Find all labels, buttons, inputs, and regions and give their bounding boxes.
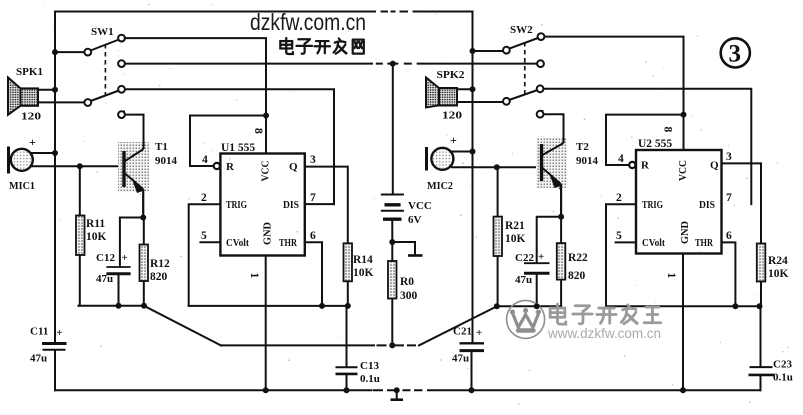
wire: right half vertical bus	[472, 12, 474, 344]
svg-text:1: 1	[248, 273, 260, 279]
capacitor C23	[749, 367, 775, 375]
svg-text:C13: C13	[360, 360, 379, 372]
svg-text:6V: 6V	[408, 214, 422, 226]
svg-text:C11: C11	[30, 326, 48, 338]
svg-text:SPK2: SPK2	[437, 70, 465, 81]
svg-text:GND: GND	[679, 221, 691, 244]
svg-text:820: 820	[568, 270, 586, 282]
svg-text:R: R	[226, 161, 235, 173]
svg-text:CVolt: CVolt	[642, 238, 665, 249]
wire: T2 emitter to node	[542, 174, 561, 217]
svg-text:C12: C12	[96, 252, 115, 264]
svg-text:SW1: SW1	[91, 26, 114, 38]
svg-text:4: 4	[202, 154, 208, 166]
wire: U1 pin6 stub and down	[305, 242, 322, 306]
wire: emitter node down to R12	[143, 218, 145, 245]
wire: bottom bus dashes	[374, 389, 422, 391]
node: circled figure 3	[721, 38, 750, 67]
svg-text:VCC: VCC	[408, 200, 432, 212]
svg-text:1: 1	[665, 273, 677, 279]
wire: U1 pin5 stub	[200, 241, 220, 243]
svg-text:47u: 47u	[30, 353, 47, 365]
svg-text:7: 7	[310, 192, 316, 204]
wire: top rail right segment	[414, 11, 473, 13]
wire: C23 top stem	[760, 306, 762, 367]
wire: R22 bottom stem	[560, 280, 562, 307]
svg-text:C22: C22	[515, 252, 534, 264]
wire: top rail dash-dot gap	[382, 11, 408, 13]
wire: SW2 throw1a to U2 VCC line	[544, 37, 684, 150]
ground (battery minus tap)	[392, 242, 422, 256]
speaker SPK2	[426, 78, 457, 108]
wire: battery rail to SW2 throw1b	[418, 63, 537, 65]
svg-text:CVolt: CVolt	[226, 238, 249, 249]
svg-text:2: 2	[201, 192, 207, 204]
wire: left vertical VCC bus	[54, 12, 56, 343]
wire: R12 bottom stem	[143, 281, 145, 306]
wire: R11 bottom to left signal bus	[79, 255, 80, 306]
wire: SW1 throw2b to T1 collector	[124, 112, 144, 150]
watermark logo circle W	[507, 300, 545, 338]
wire: U1 pin3 out to R14	[305, 167, 348, 244]
svg-text:C23: C23	[773, 359, 792, 371]
wire: R14 bottom stem	[347, 281, 349, 306]
svg-text:5: 5	[616, 230, 622, 242]
wire: right TRIG/THR bus segment	[606, 305, 760, 307]
svg-text:MIC2: MIC2	[427, 180, 453, 192]
svg-text:DIS: DIS	[699, 200, 715, 211]
resistor R21	[494, 217, 503, 256]
svg-text:U2 555: U2 555	[638, 138, 672, 150]
svg-text:3: 3	[310, 154, 316, 166]
svg-text:0.1u: 0.1u	[360, 373, 380, 385]
wire: bottom ground bus right	[428, 389, 760, 391]
wire: U2 pin4 reset loop to VCC node	[606, 115, 684, 165]
wire: T1 collector	[125, 148, 144, 160]
svg-text:4: 4	[618, 153, 624, 165]
resistor R12	[140, 245, 149, 282]
wire: SW1 pole2 common to SPK1	[38, 101, 85, 103]
svg-text:10K: 10K	[768, 268, 789, 280]
svg-text:+: +	[29, 135, 36, 149]
speaker SPK1	[8, 78, 38, 115]
wire: SW2 pole2 common to SPK2	[457, 101, 503, 103]
capacitor C22 (electrolytic)	[524, 263, 550, 273]
wire: T2 collector	[542, 147, 564, 160]
svg-text:10K: 10K	[86, 231, 107, 243]
svg-text:5: 5	[201, 230, 207, 242]
svg-text:R11: R11	[86, 218, 105, 230]
svg-text:GND: GND	[262, 222, 274, 245]
wire: SW1 throw1b to battery + (long rail)	[125, 63, 372, 65]
microphone MIC2	[427, 147, 454, 171]
switch SW1	[84, 35, 125, 118]
svg-text:300: 300	[400, 290, 418, 302]
wire: right bus below C21	[471, 351, 473, 390]
wire: MIC1 plus to VCC bus	[30, 152, 56, 154]
wire: U1 pin1 GND stem	[265, 256, 267, 391]
svg-text:SW2: SW2	[510, 24, 533, 36]
svg-text:9014: 9014	[576, 155, 599, 167]
op-amp/timer U1 555 box	[220, 154, 304, 256]
wire: U1 pin2 stub and down to TRIG/THR bus	[189, 204, 221, 306]
wire: SPK2 top terminal to right bus	[457, 88, 473, 90]
svg-text:8: 8	[252, 128, 264, 134]
svg-text:C21: C21	[453, 326, 472, 338]
svg-text:MIC1: MIC1	[9, 180, 35, 192]
svg-text:7: 7	[726, 192, 732, 204]
wire: U2 pin2 stub and down	[606, 204, 636, 306]
wire: MIC2 plus to right bus	[451, 151, 473, 153]
svg-text:9014: 9014	[155, 155, 178, 167]
svg-text:8: 8	[662, 127, 674, 133]
wire: emitter node to C12 top	[120, 218, 143, 268]
wire: TRIG/THR bus segment	[189, 305, 348, 307]
svg-text:T2: T2	[576, 141, 589, 153]
op-amp/timer U2 555 box	[636, 150, 722, 254]
wire: U2 pin6 stub and down	[722, 242, 736, 306]
wire: MIC1 output to T1 base	[31, 165, 123, 167]
svg-text:R21: R21	[505, 220, 525, 232]
svg-text:TRIG: TRIG	[226, 200, 247, 211]
wire: diagonal left bus to middle line	[144, 306, 221, 346]
svg-text:0.1u: 0.1u	[773, 372, 793, 384]
capacitor C21 (electrolytic, on right bus)	[460, 343, 485, 350]
wire: SW1 throw2a to U1 pin7	[125, 89, 334, 204]
battery VCC 6V	[381, 64, 404, 261]
resistor R24	[757, 244, 766, 282]
resistor R0	[388, 261, 397, 299]
pin bubble U1 pin4	[214, 163, 220, 169]
svg-text:R12: R12	[150, 258, 170, 270]
svg-text:U1 555: U1 555	[221, 142, 255, 154]
wire: SW2 throw2b to T2 collector	[543, 111, 564, 148]
svg-text:+: +	[57, 327, 63, 339]
svg-text:+: +	[450, 133, 457, 147]
wire: battery rail dash-dot	[377, 63, 411, 65]
svg-text:Q: Q	[289, 161, 298, 173]
resistor R14	[344, 243, 353, 281]
wire: SW2 throw2a to U2 pin7	[544, 89, 751, 204]
svg-text:10K: 10K	[353, 267, 374, 279]
svg-text:+: +	[476, 327, 482, 339]
svg-text:6: 6	[310, 230, 316, 242]
wire: SPK1 top terminal to VCC bus	[38, 89, 55, 91]
svg-text:Q: Q	[710, 160, 719, 172]
wire: MIC2 output to T2 base	[452, 166, 540, 168]
ground (bottom center)	[391, 390, 404, 399]
wire: T1 emitter to node	[125, 174, 143, 218]
svg-text:R24: R24	[768, 255, 788, 267]
svg-text:THR: THR	[695, 238, 713, 249]
wire: R11 top stem	[79, 166, 81, 215]
wire: C23 bottom stem and bus corner	[760, 375, 762, 390]
wire: left signal-ground bus segment	[79, 305, 145, 307]
svg-text:6: 6	[726, 230, 732, 242]
svg-text:3: 3	[726, 151, 732, 163]
wire: SW1 throw1a to U1 VCC line	[125, 38, 266, 153]
wire: battery bottom stem	[391, 219, 393, 261]
wire: diagonal middle line to right bus	[419, 306, 497, 345]
switch SW2	[503, 33, 544, 117]
wire: middle ground line solid	[221, 344, 374, 346]
capacitor C12 (electrolytic)	[106, 267, 130, 274]
svg-text:R14: R14	[353, 254, 373, 266]
pin bubble U2 pin4	[629, 162, 635, 168]
resistor R11	[76, 216, 85, 256]
wire: left bus below C11 to ground bus	[54, 351, 56, 391]
wire: SW1 pole1 common to VCC bus	[55, 51, 85, 53]
wire: C13 bottom stem	[346, 374, 348, 390]
microphone MIC1	[9, 147, 33, 174]
wire: U2 pin5 stub	[616, 241, 636, 243]
wire: right signal-ground bus segment	[497, 305, 561, 307]
resistor R22	[557, 243, 566, 280]
wire: U1 pin4 reset loop to VCC node	[190, 116, 266, 167]
wire: battery top stem	[392, 64, 394, 194]
wire: U2 pin3 out to R24	[722, 163, 762, 243]
svg-text:www.dzkfw.com.cn: www.dzkfw.com.cn	[547, 326, 661, 341]
wire: emitter node down to R22	[560, 217, 562, 243]
svg-text:120: 120	[21, 112, 41, 123]
svg-text:3: 3	[729, 41, 742, 68]
wire: R21 bottom stem	[497, 256, 499, 306]
svg-text:TRIG: TRIG	[642, 200, 663, 211]
wire: R21 top stem	[497, 167, 499, 216]
svg-text:R: R	[641, 160, 650, 172]
wire: C13 top stem	[346, 306, 348, 367]
svg-text:+: +	[538, 251, 544, 263]
wire: bottom ground bus left	[55, 389, 371, 391]
wire: U1 pin7 stub	[305, 203, 334, 205]
header site name (CJK drawn)	[280, 38, 363, 54]
capacitor C13	[336, 367, 358, 374]
transistor T1	[118, 115, 149, 218]
svg-text:47u: 47u	[452, 353, 469, 365]
svg-text:THR: THR	[279, 238, 297, 249]
wire: R0 bottom stem	[391, 299, 393, 346]
wire: C12 bottom stem	[118, 274, 120, 306]
svg-text:R22: R22	[568, 252, 588, 264]
svg-text:2: 2	[616, 192, 622, 204]
svg-text:120: 120	[442, 111, 462, 122]
svg-text:820: 820	[150, 271, 168, 283]
svg-text:47u: 47u	[515, 274, 532, 286]
svg-text:R0: R0	[400, 276, 414, 288]
svg-text:+: +	[122, 252, 128, 264]
svg-text:DIS: DIS	[283, 200, 299, 211]
svg-text:10K: 10K	[505, 233, 526, 245]
wire: top VCC rail border	[55, 11, 375, 13]
watermark CJK text	[550, 304, 661, 324]
wire: middle line dashes	[378, 344, 416, 346]
svg-text:T1: T1	[155, 141, 168, 153]
svg-text:47u: 47u	[96, 273, 113, 285]
wire: C22 bottom stem	[536, 274, 538, 307]
wire: U2 pin1 GND stem	[682, 254, 684, 391]
capacitor C11 (electrolytic, on VCC bus)	[42, 344, 67, 350]
svg-text:SPK1: SPK1	[16, 67, 43, 78]
transistor T2	[536, 114, 567, 217]
wire: emitter node to C22 top	[537, 217, 561, 263]
wire: R24 bottom stem	[760, 282, 762, 307]
svg-text:VCC: VCC	[677, 160, 689, 181]
svg-text:VCC: VCC	[260, 160, 272, 181]
wire: SW2 pole1 common to right VCC bus	[473, 50, 504, 52]
